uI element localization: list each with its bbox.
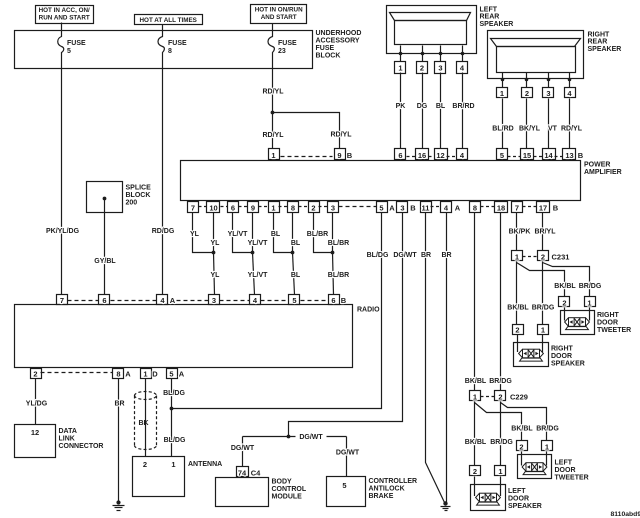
wire DG/WT to body control module — [231, 437, 255, 467]
svg-text:SPLICE: SPLICE — [126, 184, 152, 191]
svg-text:LEFT: LEFT — [480, 6, 498, 13]
svg-text:RD/YL: RD/YL — [263, 89, 285, 96]
hot in acc box — [36, 6, 94, 24]
left rear speaker pin 2 — [417, 54, 428, 74]
right rear speaker pin 1 — [497, 80, 508, 98]
svg-text:16: 16 — [418, 151, 426, 160]
svg-text:1: 1 — [398, 64, 402, 73]
svg-text:8110abd9: 8110abd9 — [611, 511, 640, 518]
amp bottom dash 11-4 — [431, 206, 441, 208]
C229 dash — [481, 396, 495, 398]
svg-text:FUSE: FUSE — [168, 40, 187, 47]
svg-text:2: 2 — [519, 443, 523, 452]
svg-text:3: 3 — [212, 296, 216, 305]
svg-text:BR: BR — [441, 252, 451, 259]
svg-text:YL/DG: YL/DG — [26, 401, 48, 408]
amp bottom dash 8-18 — [481, 206, 495, 208]
svg-text:17: 17 — [539, 203, 547, 212]
svg-text:BL: BL — [271, 231, 281, 238]
svg-text:3: 3 — [400, 203, 404, 212]
left door tweeter pin 2 — [517, 441, 528, 452]
svg-text:B: B — [578, 151, 584, 160]
wire BL/DG branch to amp pin 5 A — [172, 213, 389, 409]
node YL/VT junction — [251, 251, 255, 255]
wire hot3 to fuse block — [272, 24, 274, 31]
wire PK/YL/DG fuse5 to radio pin 7 — [46, 69, 80, 295]
left door speaker pin 2 — [470, 466, 481, 477]
amp bottom pin 7 (right) — [512, 202, 523, 213]
svg-text:BL/RD: BL/RD — [492, 126, 513, 133]
svg-text:6: 6 — [331, 296, 335, 305]
svg-text:BL: BL — [436, 103, 446, 110]
wire YL/VT amp pin 6 — [228, 213, 253, 253]
svg-text:BK/BL: BK/BL — [465, 378, 487, 385]
wire amp pin 18 to C229 — [489, 213, 512, 391]
left door tweeter — [518, 452, 589, 482]
right door speaker — [514, 335, 585, 368]
ground amp BR — [441, 501, 451, 510]
svg-text:RIGHT: RIGHT — [551, 345, 574, 352]
svg-text:15: 15 — [523, 151, 531, 160]
svg-text:1: 1 — [473, 393, 477, 402]
svg-text:TWEETER: TWEETER — [555, 474, 589, 481]
svg-text:DG/WT: DG/WT — [299, 434, 323, 441]
amp top dashes 6-16-12-4 — [407, 156, 457, 158]
svg-text:1: 1 — [498, 467, 502, 476]
svg-text:18: 18 — [497, 203, 505, 212]
svg-text:SPEAKER: SPEAKER — [551, 360, 585, 367]
svg-text:BK/BL: BK/BL — [554, 283, 576, 290]
svg-text:AND START: AND START — [261, 14, 297, 21]
svg-text:9: 9 — [251, 203, 255, 212]
wire DG to amp pin 16 — [417, 73, 428, 149]
svg-text:2: 2 — [420, 64, 424, 73]
wire BR amp pin 11 to ground — [421, 213, 445, 503]
svg-text:2: 2 — [562, 299, 566, 308]
svg-text:13: 13 — [565, 151, 573, 160]
data link connector — [15, 425, 104, 458]
node DG/WT junction — [287, 435, 291, 439]
svg-text:BR/RD: BR/RD — [452, 103, 474, 110]
svg-text:5: 5 — [379, 203, 383, 212]
svg-text:2: 2 — [541, 253, 545, 262]
svg-text:BL: BL — [291, 272, 301, 279]
node RD/YL junction — [271, 111, 275, 115]
svg-text:SPEAKER: SPEAKER — [480, 21, 514, 28]
svg-text:7: 7 — [191, 203, 195, 212]
amp bottom dash 7-17 — [523, 206, 537, 208]
amp bottom pin 2 — [309, 202, 320, 213]
svg-text:5: 5 — [169, 370, 173, 379]
svg-text:YL/VT: YL/VT — [228, 231, 249, 238]
wire BK/YL to amp pin 15 — [519, 99, 541, 149]
fuse 5 — [58, 31, 86, 69]
svg-text:A: A — [125, 370, 131, 379]
svg-text:200: 200 — [126, 199, 138, 206]
svg-text:BL/DG: BL/DG — [163, 390, 185, 397]
svg-text:B: B — [410, 203, 416, 212]
svg-text:ANTILOCK: ANTILOCK — [369, 486, 405, 493]
power amplifier U1 — [181, 161, 622, 201]
svg-text:BK/PK: BK/PK — [509, 229, 531, 236]
svg-text:ACCESSORY: ACCESSORY — [316, 38, 360, 45]
svg-text:AMPLIFIER: AMPLIFIER — [584, 169, 622, 176]
amp bottom pin 1 — [269, 202, 280, 213]
wire BL amp pin 8 — [291, 213, 301, 253]
svg-text:YL/VT: YL/VT — [248, 240, 269, 247]
connector C231 pin 2 — [538, 251, 570, 262]
svg-text:1: 1 — [171, 460, 175, 469]
svg-text:REAR: REAR — [588, 39, 608, 46]
wire RD/YL branch to amp pin 9 — [273, 113, 353, 149]
wire BK/BL C229 branch to left door tweeter pin 2 — [475, 403, 534, 441]
radio top pin 5 — [289, 295, 300, 306]
radio top pin 7 — [57, 295, 68, 306]
wire GY/BL splice to radio pin 6 — [94, 199, 116, 295]
svg-text:BK/BL: BK/BL — [507, 305, 529, 312]
wire DG/WT amp pin 3 B to splice — [289, 213, 418, 437]
wire RD/YL fuse23 down to amp pin 1 — [263, 69, 285, 149]
svg-text:10: 10 — [209, 203, 217, 212]
svg-text:A: A — [179, 370, 185, 379]
svg-text:5: 5 — [500, 151, 504, 160]
svg-text:1: 1 — [587, 299, 591, 308]
svg-text:BL/DG: BL/DG — [164, 437, 186, 444]
svg-text:DATA: DATA — [59, 428, 77, 435]
radio top pin 4 A — [157, 295, 176, 306]
svg-text:1: 1 — [515, 253, 519, 262]
wire BR amp pin 4 A to ground — [441, 213, 451, 503]
svg-text:CONNECTOR: CONNECTOR — [59, 443, 104, 450]
wire hot2 to fuse block — [162, 25, 164, 31]
svg-text:9: 9 — [337, 151, 341, 160]
svg-text:A: A — [170, 296, 176, 305]
svg-text:DOOR: DOOR — [551, 353, 572, 360]
svg-text:23: 23 — [278, 48, 286, 55]
wire BR/YL amp pin 17 to C231 — [535, 213, 557, 251]
wire BL/BR to radio pin 6 — [328, 253, 349, 295]
hot at all times box — [135, 15, 203, 25]
wire YL amp pin 10 — [211, 213, 221, 253]
svg-text:HOT AT ALL TIMES: HOT AT ALL TIMES — [140, 17, 197, 24]
amp top pin 1 — [269, 149, 280, 160]
svg-text:RD/YL: RD/YL — [331, 132, 353, 139]
amp top pin 12 — [435, 149, 448, 160]
svg-text:RUN AND START: RUN AND START — [39, 14, 90, 21]
svg-text:BLOCK: BLOCK — [126, 192, 151, 199]
amp top pin 4 — [457, 149, 468, 160]
svg-text:PK/YL/DG: PK/YL/DG — [46, 228, 80, 235]
svg-text:2: 2 — [473, 467, 477, 476]
amp bottom pin 11 — [421, 202, 432, 213]
wire YL amp pin 7 — [190, 213, 213, 253]
svg-text:A: A — [455, 203, 461, 212]
svg-text:YL: YL — [211, 240, 221, 247]
svg-text:FUSE: FUSE — [316, 45, 335, 52]
svg-text:RADIO: RADIO — [357, 306, 380, 313]
radio top connector dashes — [68, 300, 329, 302]
radio bottom pin 2 — [31, 369, 42, 379]
svg-text:C231: C231 — [552, 253, 570, 262]
svg-text:PK: PK — [396, 103, 406, 110]
node BL/BR junction — [331, 251, 335, 255]
svg-text:B: B — [341, 296, 347, 305]
wire BL/BR amp pin 2 — [307, 213, 333, 253]
wire RD/YL to amp pin 13 — [561, 99, 583, 149]
wire BL/BR amp pin 3 — [328, 213, 349, 253]
amp bottom pin 9 — [248, 202, 259, 213]
wire BL to radio pin 5 — [291, 253, 301, 295]
svg-text:CONTROLLER: CONTROLLER — [369, 478, 418, 485]
svg-text:VT: VT — [548, 126, 558, 133]
connector C229 pin 2 — [495, 391, 528, 402]
radio — [15, 305, 381, 368]
left door tweeter pin 1 — [542, 441, 553, 452]
wire YL/VT to radio pin 4 — [248, 253, 269, 295]
wire DG/WT to controller antilock brake — [336, 437, 360, 477]
antenna coax shield BK — [135, 392, 157, 450]
svg-text:ANTENNA: ANTENNA — [188, 461, 222, 468]
svg-text:11: 11 — [422, 203, 430, 212]
svg-text:12: 12 — [436, 151, 444, 160]
connector C231 pin 1 — [512, 251, 523, 262]
svg-text:BLOCK: BLOCK — [316, 53, 341, 60]
svg-text:DG/WT: DG/WT — [393, 252, 417, 259]
svg-text:7: 7 — [515, 203, 519, 212]
antenna — [133, 457, 223, 497]
wire BK/BL C229 to left door speaker pin 2 — [465, 402, 487, 466]
svg-text:UNDERHOOD: UNDERHOOD — [316, 30, 362, 37]
wire BK/BL C231 to right door speaker pin 2 — [507, 262, 529, 325]
wire BR radio pin8 to ground — [114, 379, 124, 503]
right door speaker pin 1 — [538, 325, 549, 335]
ground radio — [113, 500, 125, 510]
svg-text:1: 1 — [271, 151, 275, 160]
svg-text:2: 2 — [33, 370, 37, 379]
controller antilock brake — [327, 477, 418, 507]
amp bottom pin 3 — [328, 202, 339, 213]
svg-text:HOT IN ACC, ON/: HOT IN ACC, ON/ — [39, 7, 90, 14]
svg-text:2: 2 — [498, 393, 502, 402]
svg-text:74: 74 — [238, 469, 247, 478]
svg-text:1: 1 — [541, 326, 545, 335]
svg-text:LEFT: LEFT — [508, 488, 526, 495]
wire BR/DG C231 branch to right door tweeter pin 1 — [543, 263, 602, 297]
svg-text:8: 8 — [116, 370, 120, 379]
radio top pin 6 — [99, 295, 110, 306]
amp bottom pin 8 (right) — [470, 202, 481, 213]
wire BR/DG C229 branch to left door tweeter pin 1 — [501, 403, 560, 441]
right rear speaker pin 4 — [565, 80, 576, 98]
svg-text:DG: DG — [417, 103, 428, 110]
svg-text:BK: BK — [138, 420, 148, 427]
wire RD/DG fuse8 to radio pin 4A — [152, 69, 175, 295]
svg-text:2: 2 — [525, 89, 529, 98]
svg-text:12: 12 — [31, 428, 39, 437]
amp bottom dash 3 to 5 — [339, 206, 377, 208]
left rear speaker — [387, 6, 514, 56]
svg-text:5: 5 — [292, 296, 296, 305]
amp top dashes 5-15-14-13 — [508, 156, 563, 158]
svg-text:DG/WT: DG/WT — [231, 445, 255, 452]
svg-text:FUSE: FUSE — [278, 40, 297, 47]
wire BK/PK amp pin 7 to C231 — [509, 213, 531, 251]
svg-text:1: 1 — [271, 203, 275, 212]
C231 dash — [523, 256, 538, 258]
left door speaker pin 1 — [495, 466, 506, 477]
svg-text:RD/YL: RD/YL — [263, 132, 285, 139]
svg-text:6: 6 — [231, 203, 235, 212]
svg-text:C229: C229 — [510, 393, 528, 402]
node BL/DG junction — [170, 407, 174, 411]
svg-text:DOOR: DOOR — [597, 319, 618, 326]
body control module — [216, 478, 307, 507]
svg-text:BL: BL — [291, 240, 301, 247]
radio bottom pin 8 A — [113, 369, 132, 379]
svg-text:3: 3 — [438, 64, 442, 73]
wire BR/DG C229 to left door speaker pin 1 — [490, 402, 513, 466]
svg-text:DOOR: DOOR — [508, 495, 529, 502]
wire BK/BL C231 branch to right door tweeter pin 2 — [517, 263, 577, 297]
svg-text:BRAKE: BRAKE — [369, 493, 394, 500]
amp bottom pin 4 A — [441, 202, 461, 213]
amp top pin 14 — [543, 149, 556, 160]
svg-text:BR/DG: BR/DG — [579, 283, 602, 290]
connector C229 pin 1 — [470, 391, 481, 402]
svg-text:7: 7 — [60, 296, 64, 305]
svg-text:BK/BL: BK/BL — [511, 426, 533, 433]
amp bottom pin 3 B — [397, 202, 417, 213]
wire PK to amp pin 6 — [396, 73, 406, 149]
amp bottom pin 10 — [207, 202, 220, 213]
amp bottom pin 6 — [228, 202, 239, 213]
amp top pin 5 — [497, 149, 508, 160]
svg-text:5: 5 — [342, 481, 346, 490]
svg-text:RIGHT: RIGHT — [588, 31, 611, 38]
svg-text:BK/BL: BK/BL — [465, 439, 487, 446]
svg-text:BL/DG: BL/DG — [367, 252, 389, 259]
svg-text:8: 8 — [291, 203, 295, 212]
svg-text:BODY: BODY — [272, 479, 293, 486]
svg-text:1: 1 — [500, 89, 504, 98]
wire VT to amp pin 14 — [548, 99, 558, 149]
svg-text:5: 5 — [67, 48, 71, 55]
svg-text:YL/VT: YL/VT — [248, 272, 269, 279]
svg-text:RD/YL: RD/YL — [561, 126, 583, 133]
svg-text:1: 1 — [143, 370, 147, 379]
amp top pin 13 B — [563, 149, 584, 160]
amp bottom pin 7 — [188, 202, 199, 213]
radio top pin 6 B — [329, 295, 347, 306]
svg-text:C4: C4 — [251, 469, 261, 478]
amp top pin 15 — [521, 149, 534, 160]
svg-text:LINK: LINK — [59, 436, 75, 443]
wire BL/RD to amp pin 5 — [492, 99, 513, 149]
amp bottom pin 5 A — [377, 202, 396, 213]
wire YL/DG radio pin2 to DLC — [26, 379, 48, 425]
svg-text:B: B — [347, 151, 353, 160]
svg-text:YL: YL — [190, 231, 200, 238]
svg-text:MODULE: MODULE — [272, 494, 303, 501]
amp top pin 9 B — [335, 149, 353, 160]
fuse 23 — [268, 31, 297, 69]
svg-text:1: 1 — [545, 443, 549, 452]
svg-text:2: 2 — [311, 203, 315, 212]
svg-text:BR: BR — [421, 252, 431, 259]
right door tweeter — [561, 308, 632, 335]
svg-text:BR/YL: BR/YL — [535, 229, 557, 236]
wire BL amp pin 1 — [271, 213, 293, 253]
svg-text:FUSE: FUSE — [67, 40, 86, 47]
svg-text:BR/DG: BR/DG — [489, 378, 512, 385]
svg-text:HOT IN ON/RUN: HOT IN ON/RUN — [255, 7, 303, 14]
radio top pin 4 — [250, 295, 261, 306]
radio bottom pin 5 A — [167, 369, 185, 379]
svg-text:3: 3 — [331, 203, 335, 212]
svg-text:BL/BR: BL/BR — [307, 231, 328, 238]
amp top pin 16 — [416, 149, 429, 160]
svg-text:REAR: REAR — [480, 14, 500, 21]
svg-text:2: 2 — [515, 326, 519, 335]
svg-text:RIGHT: RIGHT — [597, 312, 620, 319]
svg-text:CONTROL: CONTROL — [272, 486, 307, 493]
wire YL/VT amp pin 9 — [248, 213, 269, 253]
svg-text:8: 8 — [168, 48, 172, 55]
amp bottom pin 17 B — [537, 202, 559, 213]
amp bottom dashes left connector — [199, 206, 328, 208]
svg-text:LEFT: LEFT — [555, 459, 573, 466]
right rear speaker pin 3 — [543, 80, 554, 98]
underhood accessory fuse block — [15, 30, 362, 68]
radio bottom pin 1 D — [141, 369, 159, 379]
wire YL to radio pin 3 — [211, 253, 221, 295]
wire radio pin 1 D to antenna pin 2 — [145, 379, 147, 457]
hot in on/run box — [251, 5, 307, 24]
amp top connector dash 1-9 — [281, 156, 333, 158]
svg-text:BL/BR: BL/BR — [328, 272, 349, 279]
right rear speaker — [488, 31, 622, 82]
radio top pin 3 — [209, 295, 220, 306]
amp top pin 6 — [395, 149, 406, 160]
svg-text:TWEETER: TWEETER — [597, 327, 631, 334]
right door speaker pin 2 — [513, 325, 524, 335]
svg-text:6: 6 — [398, 151, 402, 160]
svg-text:BK/YL: BK/YL — [519, 126, 541, 133]
svg-text:DG/WT: DG/WT — [336, 450, 360, 457]
wire BL to amp pin 12 — [436, 73, 446, 149]
fuse 8 — [158, 31, 187, 69]
node BL junction — [291, 251, 295, 255]
svg-text:GY/BL: GY/BL — [94, 258, 116, 265]
svg-text:DOOR: DOOR — [555, 467, 576, 474]
wire BL/DG radio pin 5 A — [163, 379, 186, 457]
svg-text:14: 14 — [544, 151, 553, 160]
radio bottom dash 2-8 — [41, 372, 113, 374]
svg-text:B: B — [553, 203, 559, 212]
svg-text:3: 3 — [546, 89, 550, 98]
left rear speaker pin 1 — [395, 54, 406, 74]
left rear speaker pin 3 — [435, 54, 446, 74]
svg-text:8: 8 — [473, 203, 477, 212]
right door tweeter pin 2 — [559, 297, 570, 308]
svg-text:SPEAKER: SPEAKER — [588, 46, 622, 53]
svg-text:2: 2 — [143, 460, 147, 469]
right door tweeter pin 1 — [585, 297, 596, 308]
wire BR/DG C231 to right door speaker pin 1 — [532, 262, 555, 325]
left door speaker — [471, 477, 542, 511]
svg-text:YL: YL — [211, 272, 221, 279]
svg-text:POWER: POWER — [584, 162, 610, 169]
